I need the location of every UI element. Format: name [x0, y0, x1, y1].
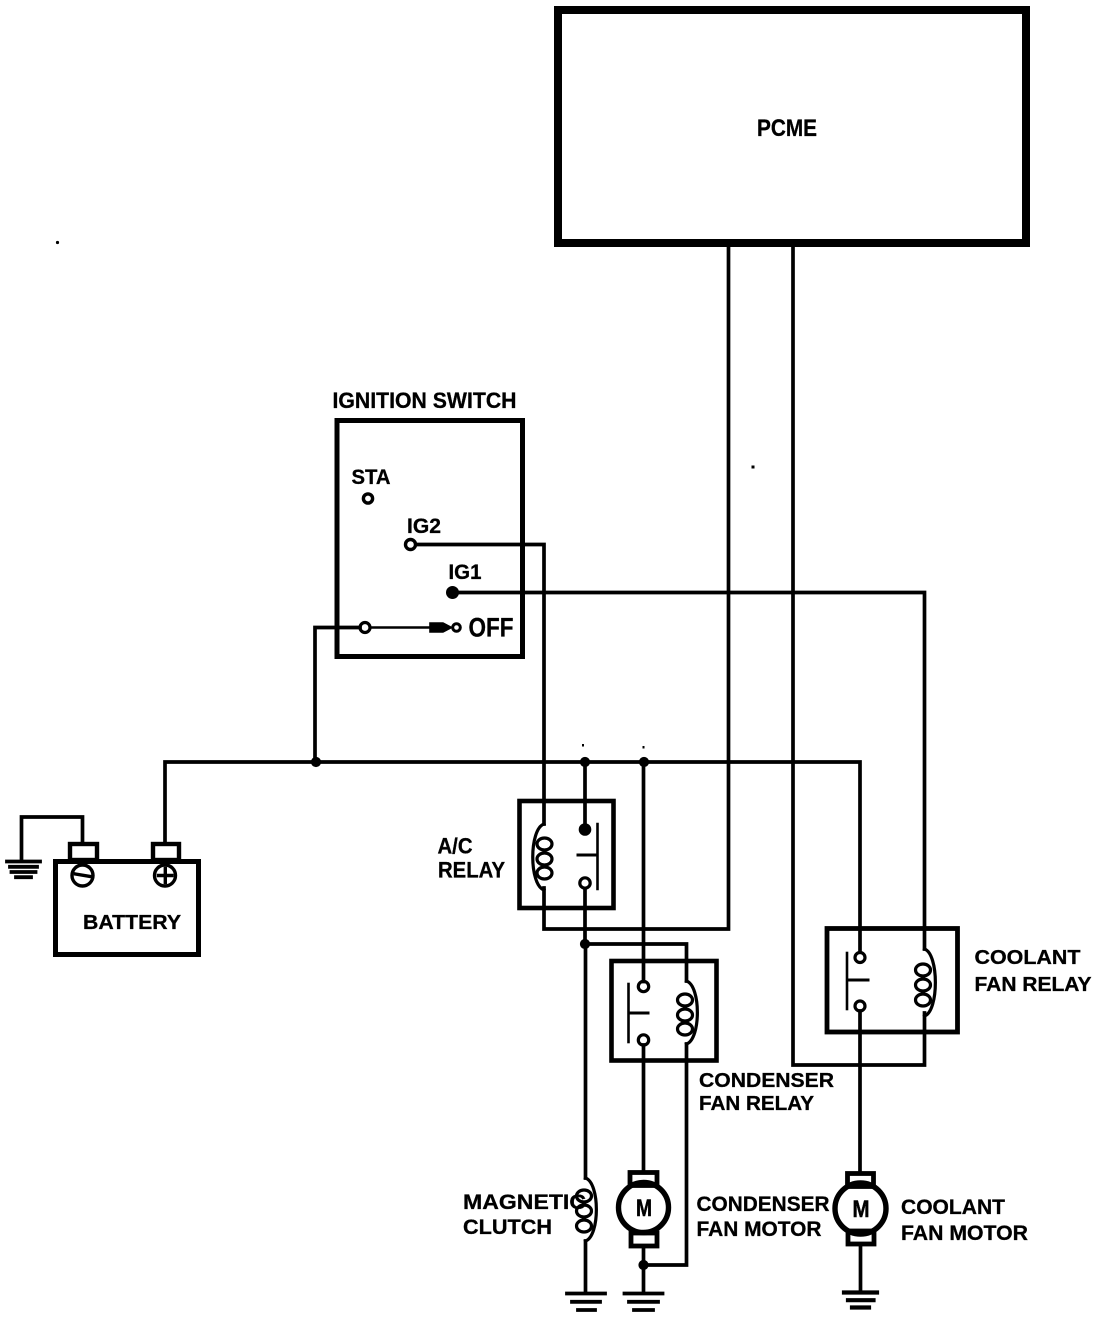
- wire magnetic clutch to ground: [584, 1241, 588, 1293]
- ECU box PCME: [558, 10, 1026, 243]
- svg-text:A/C: A/C: [438, 834, 473, 859]
- switch arm wire: [371, 626, 434, 629]
- wire coolant motor to ground: [859, 1244, 863, 1291]
- battery minus symbol: [72, 865, 93, 886]
- svg-text:FAN MOTOR: FAN MOTOR: [901, 1222, 1028, 1245]
- coolant fan motor: [835, 1174, 886, 1245]
- switch contact left: [360, 623, 370, 633]
- speck artifact near PCME wire: [752, 466, 755, 469]
- wire battery bus to A/C switch: [583, 762, 587, 824]
- condenser relay coil: [678, 981, 698, 1044]
- wire battery bus to condenser relay switch: [642, 762, 646, 982]
- wire condenser relay switch to condenser fan motor: [642, 1045, 646, 1172]
- wire condenser motor to ground: [642, 1246, 646, 1292]
- coolant relay switch: [847, 953, 868, 1012]
- battery box: [56, 862, 199, 955]
- svg-text:COOLANT: COOLANT: [901, 1196, 1005, 1219]
- svg-text:CLUTCH: CLUTCH: [463, 1216, 552, 1239]
- svg-text:FAN MOTOR: FAN MOTOR: [697, 1218, 822, 1241]
- wire PCME pin2 to coolant relay coil bottom: [793, 247, 925, 1065]
- wire battery plus bus to coolant fan relay switch: [165, 762, 860, 952]
- terminal IG2: [406, 540, 416, 550]
- coolant fan relay box: [827, 929, 958, 1033]
- battery terminal plus cap: [153, 844, 179, 860]
- condenser fan motor: [619, 1173, 669, 1247]
- svg-text:M: M: [853, 1196, 870, 1223]
- A/C relay box: [520, 801, 614, 908]
- speck artifact above A-C junction: [582, 744, 584, 747]
- junction battery bus / OFF wire: [311, 757, 320, 766]
- ground magnetic clutch: [567, 1294, 605, 1311]
- terminal OFF: [453, 624, 461, 632]
- battery plus symbol: [155, 865, 176, 886]
- wire coolant relay switch to coolant fan motor: [858, 1011, 862, 1173]
- A/C relay switch: [578, 824, 598, 889]
- svg-text:BATTERY: BATTERY: [83, 912, 182, 934]
- svg-text:OFF: OFF: [469, 613, 514, 643]
- ground coolant motor: [844, 1293, 877, 1308]
- battery terminal minus cap: [70, 844, 97, 860]
- svg-text:COOLANT: COOLANT: [975, 947, 1081, 969]
- svg-text:IG2: IG2: [407, 515, 441, 538]
- speck artifact above condenser junction: [643, 746, 645, 749]
- svg-text:FAN RELAY: FAN RELAY: [699, 1093, 815, 1115]
- svg-text:MAGNETIC: MAGNETIC: [463, 1191, 586, 1214]
- svg-text:RELAY: RELAY: [438, 858, 505, 883]
- condenser relay switch: [629, 981, 649, 1045]
- terminal IG1: [447, 587, 458, 598]
- wire battery minus to ground: [22, 817, 83, 861]
- svg-text:IG1: IG1: [449, 561, 482, 584]
- ground battery: [7, 862, 40, 878]
- wire IG2 to A/C relay coil: [417, 545, 545, 825]
- svg-text:CONDENSER: CONDENSER: [699, 1070, 835, 1092]
- svg-text:M: M: [636, 1195, 652, 1222]
- coolant relay coil: [916, 949, 936, 1016]
- wire junction to magnetic clutch coil: [584, 944, 588, 1178]
- svg-text:CONDENSER: CONDENSER: [697, 1193, 830, 1216]
- junction battery bus / A-C relay switch: [580, 757, 589, 766]
- speck artifact top left: [56, 241, 59, 244]
- A/C relay coil: [533, 824, 552, 890]
- svg-text:STA: STA: [352, 466, 391, 489]
- terminal STA: [363, 494, 372, 503]
- ground condenser motor: [625, 1294, 663, 1311]
- switch arrow: [430, 623, 452, 632]
- svg-text:PCME: PCME: [757, 115, 817, 142]
- svg-text:FAN RELAY: FAN RELAY: [975, 974, 1093, 996]
- wire OFF terminal to battery bus: [315, 628, 360, 763]
- wire junction to condenser relay coil: [585, 944, 687, 981]
- junction condenser motor ground node: [639, 1260, 648, 1269]
- junction battery bus / condenser relay switch: [639, 757, 648, 766]
- ignition switch box: [337, 421, 523, 657]
- wire condenser relay coil to motor ground node: [644, 1044, 687, 1265]
- junction A/C switch output: [580, 939, 589, 948]
- svg-text:IGNITION SWITCH: IGNITION SWITCH: [333, 388, 517, 413]
- condenser fan relay box: [612, 961, 717, 1061]
- wire A/C switch to magnetic clutch: [583, 889, 587, 945]
- wire IG1 to coolant fan relay coil: [453, 593, 925, 950]
- magnetic clutch coil: [577, 1178, 597, 1241]
- wire PCME pin1 to A/C relay coil bottom: [544, 247, 729, 929]
